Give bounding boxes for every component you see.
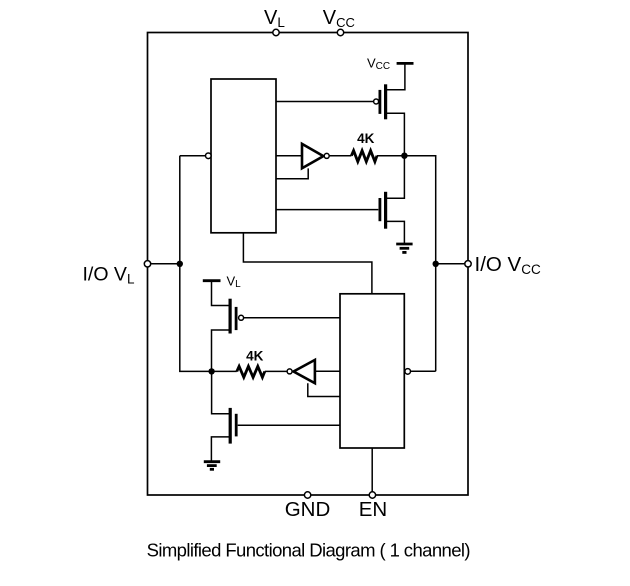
bubble on U2 right output xyxy=(405,369,411,375)
resistor R1 xyxy=(351,151,377,162)
resistor R2 xyxy=(237,366,265,377)
wire U1 to Q2 gate xyxy=(276,209,378,211)
transistor Q2 (NMOS, right) xyxy=(380,192,386,229)
wire U2 elbow to X2 bottom xyxy=(308,383,340,396)
wire VCC bar to Q1 drain xyxy=(386,65,405,90)
terminal VCC (top) xyxy=(337,29,343,35)
transistor Q4 (NMOS, lower left) xyxy=(230,408,236,444)
block U2 (lower latch block) xyxy=(340,294,404,448)
wire Q2 source to ground xyxy=(386,221,405,243)
wire X2 input from U2 xyxy=(315,370,340,372)
wire U1 to Q1 gate xyxy=(276,101,374,103)
ground (under Q4) xyxy=(204,462,220,470)
transistor Q3 (PMOS, lower left) xyxy=(230,299,244,334)
wire U1 to inverter X1 input xyxy=(276,155,302,157)
wire R1 to node B xyxy=(377,155,404,157)
terminal I/O VCC (right) xyxy=(465,261,471,267)
wire U1 elbow to X1 bottom xyxy=(276,168,308,178)
node B (upper 4K node) xyxy=(401,153,407,159)
outer boundary box xyxy=(148,33,469,496)
power symbol VL (lower left) xyxy=(203,279,221,282)
svg-text:Simplified Functional Diagram: Simplified Functional Diagram ( 1 channe… xyxy=(147,539,471,560)
wire X1 output to resistor R1 xyxy=(329,155,351,157)
terminal VL (top) xyxy=(273,29,279,35)
wire Q2 drain to node B xyxy=(386,156,405,199)
junction A (I/O VL node) xyxy=(177,261,183,267)
terminal GND (bottom) xyxy=(304,492,310,498)
inverter X1 xyxy=(302,144,329,168)
wire Q4 source to ground xyxy=(211,437,230,461)
terminal EN (bottom) xyxy=(369,492,375,498)
svg-text:4K: 4K xyxy=(246,349,264,364)
inverter X2 (left pointing) xyxy=(287,360,315,383)
node D (lower 4K node) xyxy=(208,368,214,374)
wire Q3 gate to U2 xyxy=(244,317,340,319)
wire U2 bubble to right vertical xyxy=(410,370,436,372)
terminal I/O VL (left) xyxy=(144,261,150,267)
svg-text:EN: EN xyxy=(359,498,387,521)
bubble on U1 left input xyxy=(206,153,212,159)
wire I/O VL to junction xyxy=(151,263,180,265)
wire from U1 bubble to left vertical xyxy=(180,155,206,157)
wire Q1 source to node B xyxy=(386,113,405,156)
wire R2 to inverter X2 output xyxy=(265,370,287,372)
wire U2 bottom to EN terminal xyxy=(371,448,373,492)
wire U1 bottom to U2 top xyxy=(243,233,372,294)
wire Q4 drain to node D xyxy=(212,371,231,413)
wire left vertical bus xyxy=(180,156,212,372)
ground (under Q2) xyxy=(396,244,412,252)
wire VL bar to Q3 source xyxy=(212,282,231,306)
svg-text:GND: GND xyxy=(285,498,331,521)
block U1 (upper latch block) xyxy=(211,79,276,233)
junction C (I/O VCC node) xyxy=(433,261,439,267)
wire Q4 gate to U2 xyxy=(238,424,340,426)
wire node D to R2 xyxy=(212,370,237,372)
power symbol VCC (top right) xyxy=(397,62,414,65)
transistor Q1 (PMOS, top right) xyxy=(374,84,386,119)
wire Q3 drain to node D xyxy=(212,330,231,371)
wire node B to right vertical xyxy=(404,156,435,372)
wire junction to I/O VCC terminal xyxy=(436,263,465,265)
svg-text:4K: 4K xyxy=(357,131,375,146)
